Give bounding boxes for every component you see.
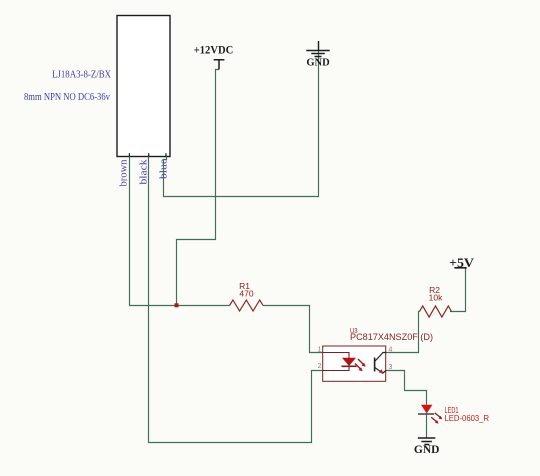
svg-text:1: 1 (318, 347, 322, 354)
sensor pin tick black (148, 153, 150, 156)
wire black net: pin down, bottom run, up to opto pin 2 (149, 157, 323, 443)
supply +12VDC symbol (214, 60, 225, 70)
U3 light arrow 2 (355, 364, 361, 370)
wire +12VDC net: down, left, to junction (177, 70, 220, 306)
wire blue net: pin jog, right, up to GND (164, 50, 319, 197)
svg-text:GND: GND (306, 58, 330, 69)
sensor pin tick brown (128, 153, 130, 156)
svg-text:+12VDC: +12VDC (194, 43, 234, 57)
svg-text:GND: GND (414, 444, 440, 456)
resistor R2 (420, 306, 452, 317)
junction dot (175, 303, 179, 307)
LED LED1 cathode bar (418, 413, 434, 415)
U3 internal LED cathode bar (342, 365, 357, 367)
sensor pin tick blue (165, 153, 167, 156)
U3 internal LED cathode wire (323, 366, 349, 370)
wire R2 net: opto pin 4 to R2 to +5V (386, 268, 466, 353)
wire LED1 cathode to GND (426, 414, 428, 438)
svg-text:PC817X4NSZ0F (D): PC817X4NSZ0F (D) (350, 332, 433, 343)
svg-text:LJ18A3-8-Z/BX: LJ18A3-8-Z/BX (52, 70, 111, 81)
svg-text:470: 470 (239, 289, 253, 299)
svg-text:8mm NPN NO DC6-36v: 8mm NPN NO DC6-36v (24, 92, 111, 103)
U3 phototransistor collector (375, 353, 386, 362)
U3 phototransistor base bar (374, 358, 376, 372)
U3 internal LED triangle (342, 358, 356, 366)
wire brown net: R1 right side to opto pin 1 (263, 306, 323, 353)
optocoupler U3 body (323, 346, 386, 381)
svg-text:brown: brown (119, 160, 130, 187)
svg-text:2: 2 (318, 363, 322, 370)
svg-text:black: black (139, 160, 150, 185)
ground GND top symbol (306, 41, 329, 57)
wire brown net: pin to R1 row (130, 157, 230, 306)
U3 phototransistor emitter (375, 367, 386, 373)
ground GND bottom symbol (418, 438, 436, 445)
LED1 light arrow 2 (431, 417, 436, 421)
svg-text:+5V: +5V (449, 256, 474, 270)
wire opto pin 3 to LED1 (386, 371, 427, 405)
svg-text:10k: 10k (429, 293, 443, 303)
sensor M1 body (117, 16, 170, 157)
LED1 light arrow 1 (435, 413, 440, 417)
svg-text:LED-0603_R: LED-0603_R (445, 414, 490, 423)
U3 light arrow 1 (358, 359, 364, 365)
LED LED1 triangle (421, 405, 432, 414)
svg-text:4: 4 (389, 347, 393, 354)
svg-text:3: 3 (389, 364, 393, 371)
U3 internal LED anode wire (323, 353, 349, 359)
supply +5V symbol (454, 267, 466, 269)
resistor R1 (230, 300, 263, 311)
